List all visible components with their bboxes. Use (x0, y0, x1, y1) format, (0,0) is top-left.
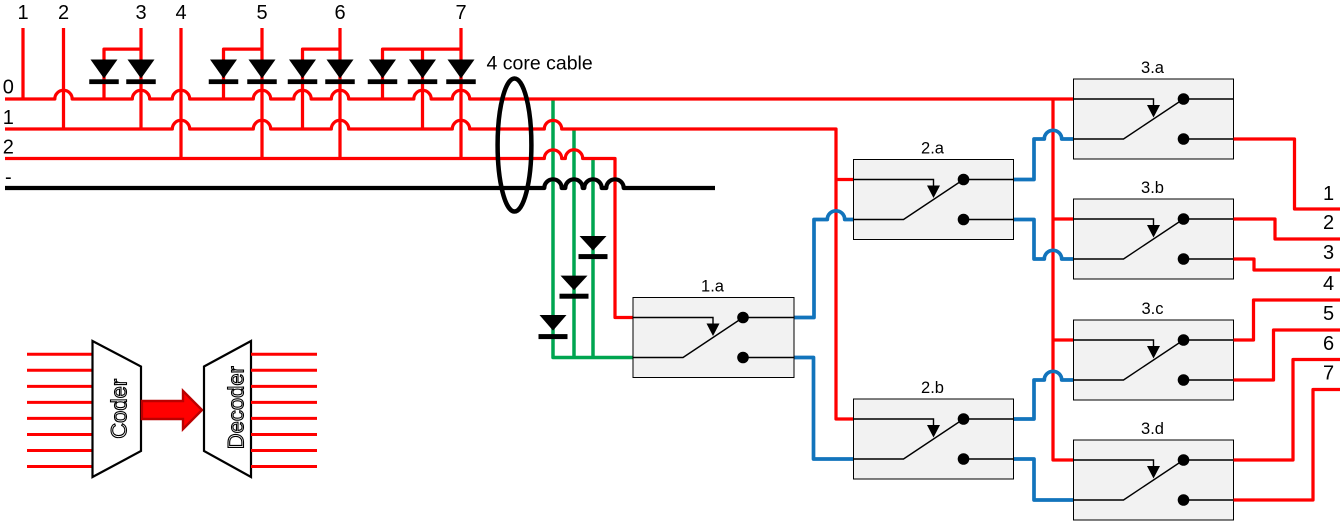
wire input 6 branch to D6a (to line 1) (303, 49, 341, 129)
wire input 7 branch to D7a (to line 0) (383, 49, 462, 99)
wire 1.a contact2 to 2.b common (blue) (794, 358, 854, 460)
decoder trapezoid (204, 341, 251, 477)
wire input 5 trunk (to line 2 via D5b) (260, 28, 263, 159)
svg-text:1: 1 (3, 107, 14, 129)
switch 3.b contact 2 (bottom) (1184, 258, 1234, 260)
wire input 5 branch to D5a (to line 0) (224, 49, 263, 99)
svg-text:6: 6 (334, 2, 345, 24)
wire output 4 (1234, 300, 1340, 340)
switch 3.b common pole and lever (1074, 219, 1184, 259)
switch 2.b box (854, 399, 1014, 479)
switch 2.b contact 1 (top) (964, 418, 1014, 420)
switch 3.c common pole and lever (1074, 340, 1184, 380)
svg-text:2.b: 2.b (921, 379, 944, 397)
switch 3.c contact 1 (top) (1184, 339, 1234, 341)
switch 3.d box (1074, 440, 1234, 520)
wire green core from line 1 (x=574) (572, 129, 576, 358)
wire green core from line 2 (x=593) (591, 159, 595, 358)
wire 2.a contact2 to 3.b common (blue) (1014, 220, 1074, 260)
wire output 2 (1234, 219, 1340, 239)
switch 2.b contact 2 (bottom) (964, 458, 1014, 460)
switch 2.a contact 1 (top) (964, 179, 1014, 181)
svg-text:1.a: 1.a (701, 278, 725, 296)
coder input lines (8 red) (27, 354, 93, 466)
switch 3.d common pole and lever (1074, 460, 1184, 500)
switch 2.a control arm with actuator arrow (854, 180, 934, 187)
wire output 7 (1234, 390, 1340, 501)
switch 3.c box (1074, 320, 1234, 400)
bus line 1 (red, y=129) with hops, turns down at x=836 to 2.a/2.b (5, 120, 854, 419)
svg-text:1: 1 (1323, 183, 1334, 205)
svg-text:2: 2 (58, 2, 69, 24)
stub line0 branch to 3.c control (1053, 338, 1074, 341)
diode DG1 on green core x=553 (540, 315, 567, 331)
wire input 2 (to line 1) (62, 28, 65, 129)
wire green core from line 0 (x=553) down to switch 1.a common (553, 99, 633, 358)
wire input 7 trunk (to line 2 via D7c) (459, 28, 462, 159)
wire input 6 trunk (to line 2 via D6b) (338, 28, 341, 159)
svg-text:0: 0 (3, 77, 14, 99)
diode D7a (369, 60, 396, 79)
switch 2.a common pole and lever (854, 180, 964, 220)
svg-text:1: 1 (17, 2, 28, 24)
wire input 1 (to line 0) (21, 28, 24, 99)
switch 3.a control arm with actuator arrow (1074, 99, 1154, 106)
diode DG2 on green core x=574 (561, 276, 588, 291)
wire 1.a contact1 to 2.a common (blue) (794, 211, 854, 318)
svg-text:Coder: Coder (107, 379, 132, 439)
coder trapezoid (93, 341, 142, 477)
wire input 4 (to line 2) (179, 28, 182, 159)
diode DG3 on green core x=593 (580, 236, 607, 251)
switch 3.a contact 1 (top) (1184, 98, 1234, 100)
wire output 3 (1234, 259, 1340, 270)
switch 2.b control arm with actuator arrow (854, 419, 934, 426)
wire input 3 branch to D3a (to line 0) (104, 49, 141, 99)
bus line 0 branch down x=1053 feeding switches 3.b 3.c 3.d (1053, 99, 1074, 460)
switch 3.b control arm with actuator arrow (1074, 219, 1154, 226)
diode D6b (327, 60, 354, 79)
stub line0 branch to 3.b control (1053, 217, 1074, 220)
stub line1 branch to 2.a control (836, 178, 854, 181)
svg-text:3.a: 3.a (1141, 59, 1165, 77)
svg-text:4 core cable: 4 core cable (487, 53, 593, 75)
diode D5a (210, 60, 237, 79)
diode D7b (409, 60, 436, 79)
switch 3.a box (1074, 79, 1234, 159)
svg-text:2.a: 2.a (921, 140, 945, 158)
diode D5b (249, 60, 276, 79)
switch 1.a control arm with actuator arrow (633, 318, 713, 325)
wire output 5 (1234, 330, 1340, 380)
switch 2.b common pole and lever (854, 419, 964, 459)
wire input 7 branch to D7b (to line 1) (421, 49, 424, 129)
cable ellipse (498, 79, 532, 212)
diode D3a (91, 60, 118, 79)
svg-text:5: 5 (256, 2, 267, 24)
svg-text:6: 6 (1323, 333, 1334, 355)
diode D3b (128, 60, 155, 79)
decoder output lines (8 red) (251, 354, 317, 466)
switch 3.c control arm with actuator arrow (1074, 340, 1154, 347)
switch 2.a box (854, 160, 1014, 240)
bus line "-" (black, y=188) with hops (5, 179, 715, 188)
switch 3.d contact 1 (top) (1184, 459, 1234, 461)
switch 3.a common pole and lever (1074, 99, 1184, 139)
bus line 2 (red, y=158.5) with hops, turns down at x=615 to 1.a control (5, 150, 633, 318)
diode D6a (289, 60, 316, 79)
wire output 6 (1234, 360, 1340, 461)
switch 1.a common pole and lever (633, 318, 743, 358)
svg-text:Decoder: Decoder (224, 366, 249, 449)
switch 3.b contact 1 (top) (1184, 218, 1234, 220)
switch 1.a contact 1 (top) (743, 317, 794, 319)
svg-text:2: 2 (3, 137, 14, 159)
diode D7c (448, 60, 475, 79)
svg-text:3.d: 3.d (1141, 420, 1164, 438)
switch 3.b box (1074, 199, 1234, 279)
svg-text:3: 3 (1323, 242, 1334, 264)
svg-text:4: 4 (175, 2, 186, 24)
wire 2.b contact2 to 3.d common (blue) (1014, 459, 1074, 500)
svg-text:7: 7 (1323, 363, 1334, 385)
svg-text:4: 4 (1323, 273, 1334, 295)
switch 3.a contact 2 (bottom) (1184, 138, 1234, 140)
svg-text:7: 7 (455, 2, 466, 24)
svg-text:3.b: 3.b (1141, 179, 1164, 197)
svg-text:5: 5 (1323, 303, 1334, 325)
svg-text:3: 3 (135, 2, 146, 24)
wire output 1 (1234, 139, 1340, 209)
wire 2.b contact1 to 3.c common (blue) (1014, 371, 1074, 419)
svg-text:-: - (5, 167, 12, 189)
switch 3.d control arm with actuator arrow (1074, 460, 1154, 467)
bus line 0 (red, y=99) with crossover hops (5, 90, 1074, 99)
svg-text:3.c: 3.c (1141, 300, 1163, 318)
switch 2.a contact 2 (bottom) (964, 219, 1014, 221)
switch 1.a contact 2 (bottom) (743, 357, 794, 359)
wire 2.a contact1 to 3.a common (blue) (1014, 130, 1074, 179)
switch 3.c contact 2 (bottom) (1184, 379, 1234, 381)
switch 1.a box (633, 298, 794, 378)
svg-text:2: 2 (1323, 212, 1334, 234)
switch 3.d contact 2 (bottom) (1184, 499, 1234, 501)
wire input 3 trunk (to line 1 via D3b) (139, 28, 142, 129)
arrow coder to decoder (142, 391, 202, 429)
